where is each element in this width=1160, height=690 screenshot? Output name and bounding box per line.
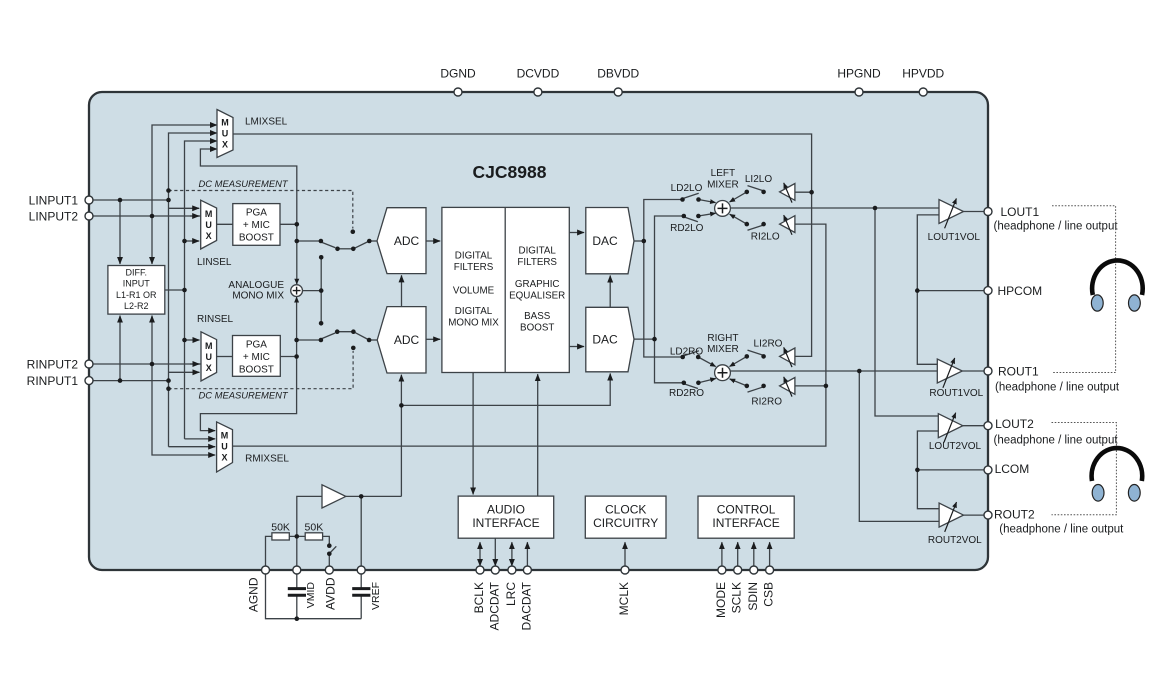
- wire LMIXSEL in4 loop from L PGA output: [200, 149, 296, 224]
- dashed DC measurement bottom: [169, 351, 354, 389]
- svg-text:PGA: PGA: [246, 207, 267, 218]
- svg-text:RI2LO: RI2LO: [751, 232, 780, 243]
- svg-text:RI2RO: RI2RO: [751, 396, 782, 407]
- svg-text:DIGITAL: DIGITAL: [519, 246, 557, 257]
- wire R PGA output: [280, 356, 296, 358]
- svg-text:BOOST: BOOST: [239, 233, 274, 244]
- svg-text:LEFT: LEFT: [711, 168, 735, 179]
- wire RINPUT2 net: [89, 363, 201, 365]
- wire ROUT2VOL to pin: [964, 514, 989, 516]
- svg-text:CONTROL: CONTROL: [717, 503, 776, 517]
- svg-text:FILTERS: FILTERS: [517, 257, 557, 268]
- svg-text:PGA: PGA: [246, 339, 267, 350]
- svg-text:EQUALISER: EQUALISER: [509, 290, 565, 301]
- wire right mixer output: [730, 370, 937, 372]
- svg-text:BASS: BASS: [524, 311, 551, 322]
- svg-text:LOUT1: LOUT1: [1001, 205, 1040, 219]
- wire mono-mix feed down (L): [296, 224, 298, 284]
- svg-text:LMIXSEL: LMIXSEL: [245, 117, 288, 128]
- pin VMID: [293, 566, 301, 574]
- amp RI2RO: [780, 378, 795, 395]
- wire AVDD switch to pin: [328, 554, 330, 570]
- switch L-ADC input (arm + contacts): [321, 241, 369, 249]
- wire LINPUT1 net: [89, 199, 169, 201]
- svg-text:U: U: [222, 128, 229, 138]
- svg-text:DAC: DAC: [592, 234, 618, 248]
- wire RMIXSEL in1 loop from R PGA output: [200, 357, 296, 431]
- switch R-ADC input (arm + contacts): [321, 332, 369, 340]
- svg-text:50K: 50K: [271, 522, 290, 534]
- wire RINSEL in3 jog: [169, 371, 200, 373]
- pin DACDAT: [523, 566, 531, 574]
- svg-text:(headphone / line output: (headphone / line output: [994, 221, 1119, 233]
- svg-text:RINPUT1: RINPUT1: [27, 374, 79, 388]
- svg-text:AVDD: AVDD: [324, 577, 338, 610]
- headphone 1: [1092, 260, 1143, 295]
- pin CSB: [766, 566, 774, 574]
- wire RI2RO tap: [795, 385, 826, 387]
- svg-text:MIXER: MIXER: [707, 179, 739, 190]
- svg-text:LOUT2: LOUT2: [995, 417, 1034, 431]
- wire RMIXSEL output: [233, 224, 826, 446]
- svg-text:MODE: MODE: [714, 582, 728, 618]
- svg-text:DC MEASUREMENT: DC MEASUREMENT: [199, 178, 289, 189]
- pin HPCOM: [984, 287, 992, 295]
- wire HPCOM to pin: [917, 290, 988, 292]
- wire SDIN input: [753, 542, 755, 570]
- wire DSP to DAC1: [569, 232, 584, 234]
- svg-text:ADCDAT: ADCDAT: [487, 581, 501, 630]
- pin LCOM: [984, 466, 992, 474]
- ADC 2: [377, 307, 426, 373]
- svg-text:DACDAT: DACDAT: [519, 581, 533, 630]
- wire VREF cap leads: [360, 570, 362, 589]
- switch LI2RO: [730, 350, 764, 366]
- wire LINSEL in3: [185, 240, 200, 242]
- switch RD2LO: [684, 213, 716, 222]
- wire AGND external: [266, 570, 362, 619]
- box PGA + MIC BOOST (right): [233, 336, 281, 377]
- capacitor VMID: [288, 589, 306, 596]
- wire CSB input: [769, 542, 771, 570]
- resistor 50K (left): [272, 533, 289, 540]
- svg-text:SCLK: SCLK: [730, 582, 744, 613]
- DAC 1: [586, 208, 634, 274]
- svg-text:LOUT2VOL: LOUT2VOL: [929, 441, 982, 452]
- svg-text:LI2RO: LI2RO: [754, 339, 783, 350]
- wire 50K to AVDD switch: [323, 536, 330, 545]
- svg-text:X: X: [221, 453, 227, 463]
- svg-text:HPVDD: HPVDD: [902, 67, 944, 81]
- svg-text:U: U: [205, 220, 212, 230]
- svg-text:LINPUT1: LINPUT1: [29, 193, 79, 207]
- pin ROUT1: [984, 367, 992, 375]
- svg-text:AGND: AGND: [246, 577, 260, 612]
- svg-text:BOOST: BOOST: [239, 365, 274, 376]
- wire DIFF output to bus: [165, 289, 185, 291]
- svg-text:(headphone / line output: (headphone / line output: [995, 382, 1120, 394]
- wire R switch to ADC2: [369, 339, 377, 341]
- wire VMID pin to buffer input: [297, 496, 322, 570]
- pin LOUT1: [984, 208, 992, 216]
- wire SCLK input: [737, 542, 739, 570]
- wire ADC2 to DSP: [426, 338, 440, 340]
- switch RI2LO: [730, 214, 764, 230]
- svg-text:LCOM: LCOM: [995, 462, 1030, 476]
- wire x=168.5 bus (LMIXSEL in2 to RMIXSEL in3): [169, 133, 218, 447]
- svg-text:DIGITAL: DIGITAL: [455, 251, 493, 262]
- svg-text:MCLK: MCLK: [617, 582, 631, 615]
- wire RINSEL in1: [185, 339, 200, 341]
- pin BCLK: [476, 566, 484, 574]
- summer analogue mono mix: [291, 285, 303, 297]
- amp VMID buffer: [322, 485, 346, 508]
- box CONTROL INTERFACE: [698, 496, 794, 538]
- pin DCVDD: [534, 88, 542, 96]
- wire between 50K resistors: [289, 535, 305, 537]
- mux RMIXSEL: [217, 422, 233, 472]
- pin DGND: [454, 88, 462, 96]
- summer left mixer: [715, 201, 731, 217]
- wire R channel to switch: [297, 339, 321, 341]
- svg-text:L1-R1 OR: L1-R1 OR: [116, 290, 157, 300]
- wire LMIXSEL output: [233, 134, 812, 356]
- svg-text:RD2LO: RD2LO: [670, 223, 704, 234]
- svg-text:CLOCK: CLOCK: [605, 503, 646, 517]
- svg-text:LI2LO: LI2LO: [745, 174, 772, 185]
- svg-text:RIGHT: RIGHT: [707, 333, 738, 344]
- svg-text:VOLUME: VOLUME: [453, 286, 495, 297]
- pin SCLK: [734, 566, 742, 574]
- pin ROUT2: [984, 511, 992, 519]
- resistor 50K (right): [305, 533, 322, 540]
- svg-text:X: X: [222, 139, 228, 149]
- svg-text:DCVDD: DCVDD: [517, 67, 560, 81]
- wire RINPUT1 net: [89, 380, 169, 382]
- svg-text:MONO MIX: MONO MIX: [232, 290, 284, 301]
- svg-text:HPCOM: HPCOM: [998, 284, 1043, 298]
- wire BCLK bidirectional: [479, 542, 481, 566]
- dotted headphone loop 1: [1052, 206, 1116, 373]
- wire AGND to divider: [266, 536, 272, 570]
- svg-text:M: M: [205, 209, 213, 219]
- wire VMID bias bus riser to ADC2: [400, 375, 402, 497]
- switch RI2RO: [730, 379, 764, 392]
- box CLOCK CIRCUITRY: [585, 496, 666, 538]
- svg-text:VMID: VMID: [305, 582, 317, 609]
- svg-text:LINSEL: LINSEL: [197, 257, 232, 268]
- chip body CJC8988: [89, 92, 988, 570]
- wire L channel to switch: [297, 240, 321, 242]
- wire DAC1 net vertical: [644, 200, 683, 358]
- svg-text:DBVDD: DBVDD: [597, 67, 639, 81]
- amp LI2LO (bypass buffer): [780, 184, 795, 201]
- wire ROUT1VOL to pin: [962, 370, 988, 372]
- svg-text:ROUT2VOL: ROUT2VOL: [928, 535, 982, 546]
- svg-text:LD2LO: LD2LO: [671, 183, 703, 194]
- mux LMIXSEL: [217, 110, 233, 158]
- box digital core: [442, 207, 569, 372]
- wire x=184.5 bus (LMIXSEL in3 to RMIXSEL in2): [185, 141, 218, 439]
- wire LOUT2VOL to pin: [963, 425, 988, 427]
- pin LINPUT1: [85, 196, 93, 204]
- svg-text:CIRCUITRY: CIRCUITRY: [593, 516, 658, 530]
- svg-text:INPUT: INPUT: [123, 279, 151, 289]
- wire buffer output: [346, 495, 402, 497]
- wire LRC bidirectional: [511, 542, 513, 566]
- wire HPCOM net: [917, 215, 939, 364]
- svg-text:BCLK: BCLK: [472, 582, 486, 613]
- pin RINPUT2: [85, 360, 93, 368]
- wire VREF riser: [360, 496, 362, 570]
- svg-text:50K: 50K: [305, 522, 324, 534]
- svg-text:SDIN: SDIN: [746, 582, 760, 611]
- wire DAC clock chain: [609, 276, 611, 308]
- amp LI2RO: [780, 348, 795, 365]
- pin SDIN: [750, 566, 758, 574]
- svg-text:X: X: [206, 363, 212, 373]
- svg-text:DIGITAL: DIGITAL: [455, 306, 493, 317]
- svg-text:LD2RO: LD2RO: [670, 347, 704, 358]
- ADC 1: [377, 208, 426, 274]
- capacitor VREF: [352, 589, 370, 596]
- svg-text:DGND: DGND: [440, 67, 476, 81]
- svg-text:FILTERS: FILTERS: [454, 262, 494, 273]
- svg-text:RD2RO: RD2RO: [669, 388, 704, 399]
- wire VMID cap leads: [296, 570, 298, 589]
- wire RINSEL in2 arrow: [190, 363, 200, 365]
- wire L switch to ADC1: [369, 240, 377, 242]
- wire LINSEL in1 jog: [169, 207, 200, 209]
- box AUDIO INTERFACE: [458, 496, 554, 538]
- pin ADCDAT: [491, 566, 499, 574]
- amp LOUT1VOL: [939, 200, 964, 224]
- wire mono mix output: [302, 290, 321, 292]
- mux RINSEL: [201, 332, 217, 381]
- svg-text:+ MIC: + MIC: [243, 220, 270, 231]
- pin AGND: [262, 566, 270, 574]
- wire mono mix throw line vertical: [320, 257, 322, 323]
- svg-text:U: U: [206, 352, 213, 362]
- svg-text:U: U: [221, 442, 228, 452]
- wire MCLK input: [624, 542, 626, 570]
- pin HPGND: [855, 88, 863, 96]
- svg-text:CJC8988: CJC8988: [473, 162, 547, 182]
- svg-text:M: M: [221, 431, 229, 441]
- pin LRC: [508, 566, 516, 574]
- wire DSP to AUDIO INTERFACE: [472, 373, 474, 495]
- box DIFF INPUT: [108, 266, 165, 315]
- svg-text:ADC: ADC: [394, 234, 420, 248]
- wire x=152 into DIFF top: [151, 216, 153, 264]
- wire left mixer output: [730, 207, 939, 209]
- switch AVDD (VMID enable): [330, 546, 336, 553]
- svg-text:(headphone / line output: (headphone / line output: [999, 524, 1124, 536]
- dotted headphone loop 2: [1052, 423, 1117, 515]
- wire RMIXSEL in3: [169, 446, 216, 448]
- wire ADCDAT output: [494, 538, 496, 566]
- switch RD2RO: [684, 379, 716, 389]
- amp ROUT1VOL: [937, 359, 962, 383]
- amp ROUT2VOL: [939, 503, 963, 527]
- svg-text:HPGND: HPGND: [837, 67, 881, 81]
- wire RMIXSEL in2: [185, 438, 216, 440]
- wire x=120 LINPUT1 into DIFF top: [119, 200, 121, 264]
- wire vertical bus x=152 upper (LINPUT2 to LMIXSEL in1): [152, 125, 217, 216]
- svg-text:RMIXSEL: RMIXSEL: [245, 454, 289, 465]
- wire DACDAT input: [526, 542, 528, 570]
- switch LD2LO: [683, 193, 716, 202]
- svg-text:MONO MIX: MONO MIX: [448, 317, 499, 328]
- svg-text:M: M: [205, 341, 213, 351]
- summer right mixer: [715, 365, 731, 381]
- wire DAC2 net vertical: [655, 216, 684, 383]
- svg-text:DAC: DAC: [592, 332, 618, 346]
- svg-text:MIXER: MIXER: [707, 344, 739, 355]
- amp RI2LO: [780, 216, 795, 233]
- svg-text:+ MIC: + MIC: [243, 352, 270, 363]
- svg-text:M: M: [221, 117, 229, 127]
- mux LINSEL: [201, 200, 217, 249]
- pin AVDD: [325, 566, 333, 574]
- svg-text:ANALOGUE: ANALOGUE: [228, 280, 284, 291]
- wire x=152 lower (RINPUT2 to RMIXSEL in4): [152, 364, 215, 455]
- svg-text:ROUT1VOL: ROUT1VOL: [929, 388, 983, 399]
- wire VMID bias bus horizontal and DAC2 riser: [401, 374, 610, 406]
- wire LINSEL in2 arrow: [190, 215, 199, 217]
- svg-text:VREF: VREF: [370, 582, 382, 610]
- svg-text:ROUT1: ROUT1: [998, 364, 1039, 378]
- svg-text:CSB: CSB: [762, 582, 776, 607]
- wire mono-mix feed up (R): [296, 297, 298, 357]
- svg-text:RINSEL: RINSEL: [197, 314, 234, 325]
- svg-text:GRAPHIC: GRAPHIC: [515, 279, 560, 290]
- wire LCOM net: [917, 431, 939, 509]
- box PGA + MIC BOOST (left): [233, 204, 280, 246]
- wire DAC2 output: [634, 338, 655, 340]
- wire LOUT1VOL to pin: [964, 211, 989, 213]
- wire L PGA output: [280, 223, 297, 225]
- svg-text:BOOST: BOOST: [520, 322, 554, 333]
- wire RINSEL to R PGA: [217, 356, 233, 358]
- svg-text:DC MEASUREMENT: DC MEASUREMENT: [199, 389, 289, 400]
- DAC 2: [586, 307, 634, 372]
- wire LINSEL to L PGA: [217, 223, 233, 225]
- pin RINPUT1: [85, 377, 93, 385]
- wire MODE input: [721, 542, 723, 570]
- svg-text:ROUT2: ROUT2: [994, 508, 1035, 522]
- switch LI2LO: [730, 186, 764, 202]
- pin VREF: [357, 566, 365, 574]
- svg-text:(headphone / line output: (headphone / line output: [994, 435, 1119, 447]
- wire DAC1 output: [634, 240, 644, 242]
- wire x=120 RINPUT1 into DIFF bottom: [119, 316, 121, 381]
- wire R signal to ROUT2VOL: [859, 371, 939, 521]
- wire LCOM to pin: [917, 469, 988, 471]
- wire ADC1 to DSP: [426, 240, 440, 242]
- svg-text:LRC: LRC: [504, 582, 518, 606]
- dashed DC measurement paths: [169, 191, 354, 389]
- wire AUDIO INTERFACE to DSP: [537, 374, 539, 496]
- amp LOUT2VOL: [938, 414, 963, 438]
- switch LD2RO: [683, 351, 716, 367]
- wire DSP to DAC2: [569, 346, 584, 348]
- svg-text:INTERFACE: INTERFACE: [712, 516, 779, 530]
- wire x=152 into DIFF bottom: [151, 316, 153, 364]
- pin LINPUT2: [85, 212, 93, 220]
- wire L signal to LOUT2VOL: [875, 208, 938, 416]
- wire LI2LO tap: [795, 191, 812, 193]
- wire ADC clock chain: [401, 275, 403, 306]
- svg-text:LINPUT2: LINPUT2: [29, 209, 79, 223]
- svg-text:ADC: ADC: [394, 333, 420, 347]
- pin DBVDD: [614, 88, 622, 96]
- svg-text:AUDIO: AUDIO: [487, 503, 525, 517]
- svg-text:X: X: [206, 231, 212, 241]
- svg-text:RINPUT2: RINPUT2: [27, 357, 79, 371]
- dashed DC measurement top: [169, 191, 353, 229]
- svg-text:L2-R2: L2-R2: [124, 301, 149, 311]
- pin LOUT2: [984, 422, 992, 430]
- pin HPVDD: [919, 88, 927, 96]
- wire LINPUT2 net: [89, 215, 201, 217]
- pin MCLK: [621, 566, 629, 574]
- svg-text:INTERFACE: INTERFACE: [472, 516, 539, 530]
- svg-text:DIFF.: DIFF.: [126, 267, 148, 277]
- svg-text:LOUT1VOL: LOUT1VOL: [928, 232, 981, 243]
- headphone 2: [1092, 448, 1143, 481]
- pin MODE: [718, 566, 726, 574]
